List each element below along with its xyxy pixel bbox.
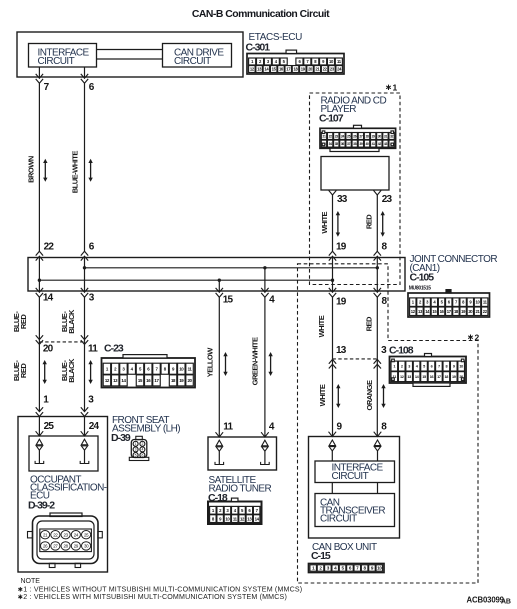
- wire WHITE radio to joint: [332, 195, 334, 252]
- arrow into C-23 pin 11: [81, 335, 88, 344]
- arrow into joint connector pin 6: [81, 251, 88, 260]
- pin 8 label (below joint): [382, 296, 388, 307]
- connector D-39 face view: [129, 436, 149, 460]
- pin 11 label: [88, 344, 98, 355]
- svg-text:D-39: D-39: [111, 432, 131, 444]
- svg-text:WHITE: WHITE: [317, 315, 326, 337]
- wire BLUE-WHITE vertical run: [84, 84, 86, 252]
- arrow into front seat assembly pin 1: [36, 407, 43, 416]
- connector C-301 pinout: [247, 50, 344, 74]
- arrow out of joint pin 4: [261, 288, 268, 297]
- terminal V can box pin 9: [329, 432, 337, 437]
- svg-text:40: 40: [365, 142, 369, 146]
- svg-text:CIRCUIT: CIRCUIT: [174, 56, 211, 67]
- svg-text:C-15: C-15: [311, 550, 331, 562]
- svg-text:C-107: C-107: [319, 113, 344, 125]
- wire BLUE-RED run to C-23: [38, 297, 40, 342]
- svg-text:MU801515: MU801515: [409, 286, 432, 292]
- svg-text:18: 18: [445, 375, 449, 379]
- connector D-39-2 face view: [28, 513, 103, 568]
- pin 22 label: [44, 242, 55, 253]
- wire interface-to-candrive lower: [97, 58, 163, 60]
- svg-text:BROWN: BROWN: [27, 156, 36, 183]
- op-amp U1 ETACS-ECU outer box: [17, 32, 243, 77]
- pin 1 label (D-39): [43, 395, 49, 406]
- svg-text:3: 3: [408, 365, 410, 369]
- pin 19 label (top): [336, 242, 347, 253]
- svg-text:19: 19: [336, 242, 347, 253]
- pin 15 label: [223, 294, 234, 305]
- svg-text:6: 6: [431, 365, 433, 369]
- svg-text:7: 7: [438, 365, 440, 369]
- figure code label: [467, 595, 511, 605]
- BLUE-WHITE wire color label: [71, 151, 80, 194]
- asterisk 1 label: [386, 83, 397, 93]
- pin 3 label: [89, 293, 95, 304]
- svg-text:C-108: C-108: [389, 345, 414, 357]
- BROWN wire color label: [27, 156, 36, 183]
- svg-text:1: 1: [393, 365, 395, 369]
- pin 6 label: [89, 82, 95, 93]
- radio and cd player label: [319, 96, 386, 125]
- svg-text:D-39-2: D-39-2: [28, 499, 55, 511]
- svg-text:34: 34: [329, 142, 333, 146]
- bus wire CAN upper: [85, 267, 378, 269]
- svg-text:10: 10: [377, 566, 382, 571]
- pin 11 label (C-18): [223, 421, 233, 432]
- svg-text:BLACK: BLACK: [67, 358, 76, 383]
- node junction brown/lower bus: [38, 279, 41, 282]
- svg-text:BLACK: BLACK: [67, 309, 76, 334]
- BLUE-RED wire color label (lower): [12, 360, 28, 381]
- terminal V radio pin 33: [329, 190, 337, 195]
- wire pin7 inside ETACS box: [38, 67, 40, 77]
- svg-text:16: 16: [430, 375, 434, 379]
- YELLOW wire color label: [205, 347, 214, 378]
- pin 8 label (C-15): [381, 421, 387, 432]
- node junction blue-white/upper bus: [83, 266, 86, 269]
- interface circuit box (can box unit): [315, 461, 395, 483]
- wire pin6-3 through joint connector: [84, 258, 86, 292]
- svg-text:WHITE: WHITE: [320, 211, 329, 233]
- svg-text:5: 5: [423, 365, 425, 369]
- node junction green-white/upper bus: [263, 266, 266, 269]
- svg-text:27: 27: [359, 134, 363, 138]
- svg-text:36: 36: [341, 142, 345, 146]
- wire pin22-14 through joint connector: [38, 258, 40, 292]
- radio and cd player unit box U2: [321, 157, 389, 191]
- svg-text:26: 26: [353, 134, 357, 138]
- pin 7 label: [44, 82, 50, 93]
- svg-text:23: 23: [335, 134, 339, 138]
- terminal pair pin 25: [35, 431, 44, 463]
- pin 3 label (D-39): [88, 395, 94, 406]
- svg-text:RED: RED: [364, 316, 373, 331]
- RED wire color label (mid): [364, 316, 373, 331]
- pin 14 label: [43, 293, 54, 304]
- svg-text:24: 24: [89, 421, 100, 432]
- wire GREEN-WHITE run: [264, 297, 266, 437]
- interface circuit box (ETACS): [29, 44, 97, 68]
- svg-text:10: 10: [459, 365, 463, 369]
- dashed box *1 (radio and cd player option): [310, 93, 401, 285]
- svg-text:22: 22: [329, 134, 333, 138]
- harness double arrow (white wire): [336, 211, 340, 237]
- occupant classification ECU label: [28, 475, 107, 512]
- wire pin4 stub in joint connector: [264, 268, 266, 291]
- WHITE wire color label (lower): [318, 384, 327, 406]
- terminal triangle symbols (can box): [329, 440, 381, 461]
- node junction red/upper bus: [376, 266, 379, 269]
- svg-text:19: 19: [452, 375, 456, 379]
- arrow into C-23 pin 20: [36, 335, 43, 344]
- svg-text:CIRCUIT: CIRCUIT: [332, 471, 369, 482]
- occupant ECU terminal box: [29, 436, 98, 471]
- terminal V radio pin 23: [374, 190, 382, 195]
- svg-text:42: 42: [378, 142, 382, 146]
- svg-text:14: 14: [43, 293, 54, 304]
- svg-text:17: 17: [437, 375, 441, 379]
- harness double arrow (yellow): [223, 352, 227, 376]
- wire to pin 25: [38, 417, 40, 437]
- terminal pair C-18 pin 4: [261, 432, 270, 464]
- wire BROWN vertical run: [38, 84, 40, 252]
- harness double arrow (orange): [381, 384, 385, 408]
- can box unit label: [311, 542, 377, 562]
- C-23 label: [104, 343, 124, 355]
- svg-text:NOTE: NOTE: [21, 578, 41, 585]
- svg-text:RED: RED: [19, 314, 28, 329]
- node junction yellow/lower bus: [218, 279, 221, 282]
- BLUE-RED wire color label: [12, 311, 28, 332]
- ORANGE wire color label: [365, 380, 374, 410]
- satellite radio tuner label: [208, 475, 271, 504]
- BLUE-BLACK wire color label (lower): [60, 358, 76, 383]
- pin 24 label: [89, 421, 100, 432]
- RED wire color label: [364, 214, 373, 229]
- svg-text:24: 24: [341, 134, 345, 138]
- svg-text:2: 2: [141, 442, 143, 446]
- arrow out of joint pin 15: [216, 288, 223, 297]
- svg-text:22: 22: [44, 242, 55, 253]
- arrow into C-108 pin 13: [329, 359, 336, 368]
- can drive circuit box (ETACS): [163, 44, 232, 68]
- svg-text:6: 6: [141, 453, 143, 457]
- svg-text:11: 11: [223, 421, 233, 432]
- svg-text:AB: AB: [501, 598, 511, 605]
- svg-text:43: 43: [384, 142, 388, 146]
- connector C-105 pinout: [408, 290, 490, 317]
- svg-text:3: 3: [135, 448, 137, 452]
- svg-text:5: 5: [135, 453, 137, 457]
- wire to pin 24: [84, 417, 86, 437]
- svg-text:41: 41: [372, 142, 376, 146]
- satellite radio tuner box: [208, 437, 277, 470]
- C-108 label: [389, 345, 414, 357]
- svg-text:RED: RED: [364, 214, 373, 229]
- arrow out of joint pin 14: [36, 288, 43, 297]
- pin 20 label: [43, 344, 54, 355]
- connector C-107 pinout: [320, 125, 396, 151]
- pin 4 label (C-18): [269, 421, 275, 432]
- ETACS-ECU label: [246, 32, 303, 54]
- svg-text:RED: RED: [19, 363, 28, 378]
- svg-text:2 : VEHICLES WITH MITSUBISHI M: 2 : VEHICLES WITH MITSUBISHI MULTI-COMMU…: [23, 593, 287, 601]
- svg-text:ORANGE: ORANGE: [365, 380, 374, 410]
- connector C-23 pinout: [102, 355, 196, 388]
- harness double arrow (green-white): [268, 352, 272, 376]
- svg-text:37: 37: [347, 142, 351, 146]
- wire interface to transceiver right: [377, 483, 379, 494]
- bus wire CAN lower: [39, 279, 332, 281]
- note text: [18, 578, 302, 601]
- svg-text:25: 25: [44, 421, 55, 432]
- harness double arrow (brown wire): [43, 159, 47, 182]
- pin 25 label: [44, 421, 55, 432]
- svg-text:4: 4: [141, 448, 143, 452]
- svg-text:32: 32: [390, 134, 394, 138]
- harness double arrow (blue-red): [43, 360, 47, 384]
- harness double arrow (red wire): [381, 211, 385, 237]
- wire BLUE-BLACK run to front seat: [84, 342, 86, 412]
- pin 9 label (C-15): [337, 421, 343, 432]
- connector C-108 pinout: [390, 354, 467, 387]
- front seat assembly label: [111, 415, 180, 444]
- svg-text:15: 15: [422, 375, 426, 379]
- svg-text:ACB03099: ACB03099: [467, 595, 505, 604]
- svg-text:29: 29: [372, 134, 376, 138]
- harness double arrow (blue-black): [88, 360, 92, 384]
- arrow out of ETACS pin 6: [81, 74, 88, 83]
- pin 3 label (C-108): [381, 345, 387, 356]
- svg-text:28: 28: [365, 134, 369, 138]
- harness double arrow (white lower): [336, 384, 340, 408]
- wire interface to transceiver left: [331, 483, 333, 494]
- wire pin15 stub in joint connector: [218, 280, 220, 291]
- harness double arrow (blue-white wire): [88, 159, 92, 182]
- svg-text:GREEN-WHITE: GREEN-WHITE: [250, 337, 259, 385]
- svg-text:31: 31: [384, 134, 388, 138]
- svg-text:13: 13: [407, 375, 411, 379]
- svg-text:15: 15: [223, 294, 234, 305]
- wire WHITE joint to C-108: [332, 297, 334, 359]
- svg-text:1: 1: [135, 442, 137, 446]
- svg-text:C-301: C-301: [246, 42, 271, 54]
- svg-text:2: 2: [475, 332, 480, 342]
- svg-text:CIRCUIT: CIRCUIT: [320, 514, 357, 525]
- occupant classification ECU outer box: [18, 417, 108, 573]
- svg-text:YELLOW: YELLOW: [205, 347, 214, 378]
- wire ORANGE C-108 to can box: [376, 359, 378, 437]
- svg-text:21: 21: [322, 134, 326, 138]
- in-line connector C-23 dashed line: [39, 341, 84, 343]
- title label: [192, 9, 330, 20]
- svg-text:11: 11: [88, 344, 98, 355]
- svg-text:33: 33: [337, 194, 348, 205]
- connector C-15 pinout: [309, 564, 385, 573]
- svg-text:19: 19: [336, 297, 347, 308]
- svg-text:1: 1: [393, 83, 398, 93]
- arrow into joint connector pin 8: [374, 251, 381, 260]
- pin 4 label: [269, 294, 275, 305]
- arrow out of ETACS pin 7: [36, 74, 43, 83]
- arrow into joint connector pin 22: [36, 251, 43, 260]
- joint connector label: [409, 254, 498, 292]
- wire RED radio to joint: [376, 195, 378, 252]
- wire YELLOW run: [218, 297, 220, 437]
- svg-text:38: 38: [353, 142, 357, 146]
- svg-text:8: 8: [445, 365, 447, 369]
- wire RED joint to C-108: [376, 297, 378, 359]
- pin 6 label (C-105): [89, 242, 95, 253]
- wire pin8 through joint connector: [376, 258, 378, 292]
- svg-text:25: 25: [347, 134, 351, 138]
- arrow into front seat assembly pin 3: [81, 407, 88, 416]
- arrow out of joint pin 8: [374, 288, 381, 297]
- arrow out of joint pin 19: [329, 288, 336, 297]
- pin 23 label: [382, 194, 393, 205]
- wire pin6 inside ETACS box: [84, 67, 86, 77]
- svg-text:BLUE-WHITE: BLUE-WHITE: [71, 151, 80, 194]
- svg-text:CIRCUIT: CIRCUIT: [38, 56, 75, 67]
- in-line connector C-108 dashed line: [333, 358, 378, 360]
- wire BLUE-RED run to front seat: [38, 342, 40, 412]
- svg-text:C-105: C-105: [410, 272, 435, 284]
- wire pin19 through joint connector: [332, 258, 334, 292]
- svg-text:35: 35: [335, 142, 339, 146]
- svg-text:9: 9: [453, 365, 455, 369]
- terminal V can box pin 8: [374, 432, 382, 437]
- joint connector C-105 box: [28, 258, 405, 292]
- wire interface-to-candrive upper: [97, 49, 163, 51]
- pin 13 label: [336, 345, 347, 356]
- connector C-18 pinout: [208, 498, 262, 524]
- arrow into joint connector pin 19: [329, 251, 336, 260]
- svg-text:2: 2: [401, 365, 403, 369]
- node junction white/lower bus: [331, 279, 334, 282]
- wire BLUE-BLACK run to C-23: [84, 297, 86, 342]
- terminal pair C-18 pin 11: [215, 432, 224, 464]
- pin 33 label: [337, 194, 348, 205]
- BLUE-BLACK wire color label: [60, 309, 76, 334]
- terminal pair pin 24: [80, 431, 89, 463]
- can transceiver circuit box: [315, 494, 395, 527]
- arrow into C-108 pin 3: [374, 359, 381, 368]
- dashed box *2 (MMCS option): [298, 264, 479, 583]
- asterisk 2 label: [468, 332, 479, 342]
- svg-text:23: 23: [382, 194, 393, 205]
- svg-text:13: 13: [336, 345, 347, 356]
- pin 8 label (top): [382, 242, 388, 253]
- svg-text:39: 39: [359, 142, 363, 146]
- can box unit outer box: [309, 437, 400, 539]
- wire WHITE C-108 to can box: [332, 359, 334, 437]
- svg-text:C-23: C-23: [104, 343, 124, 355]
- arrow out of joint pin 3: [81, 288, 88, 297]
- GREEN-WHITE wire color label: [250, 337, 259, 385]
- svg-text:30: 30: [378, 134, 382, 138]
- WHITE wire color label (mid): [317, 315, 326, 337]
- pin 19 label (below joint): [336, 297, 347, 308]
- svg-text:20: 20: [43, 344, 54, 355]
- WHITE wire color label: [320, 211, 329, 233]
- svg-text:12: 12: [400, 375, 404, 379]
- svg-text:CAN-B Communication Circuit: CAN-B Communication Circuit: [192, 9, 330, 20]
- svg-text:WHITE: WHITE: [318, 384, 327, 406]
